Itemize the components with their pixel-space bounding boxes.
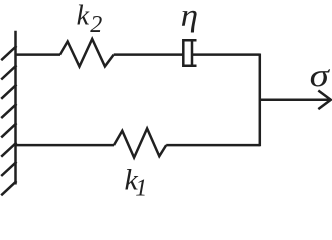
wire: wall to spring k2 [16, 53, 61, 56]
stress arrow sigma (applied load) [260, 91, 331, 110]
svg-text:k: k [77, 1, 90, 32]
svg-text:1: 1 [135, 176, 147, 202]
svg-text:η: η [181, 0, 198, 33]
spring k2 (zigzag) [60, 39, 114, 67]
fixed support wall (ground) with hatching [1, 31, 16, 196]
svg-text:2: 2 [90, 12, 102, 38]
wire: wall to spring k1 [16, 144, 115, 147]
svg-text:σ: σ [310, 57, 330, 94]
dashpot cylinder bracket [183, 40, 196, 65]
dashpot eta [183, 40, 259, 66]
wire: spring k2 to dashpot [114, 53, 183, 56]
wire: spring k1 to right rail [166, 144, 260, 147]
wire: right vertical rail joining both branches [259, 54, 262, 147]
dashpot piston rod to right rail [193, 53, 260, 56]
spring k1 (zigzag) [114, 129, 166, 158]
dashpot piston plate [191, 40, 194, 65]
